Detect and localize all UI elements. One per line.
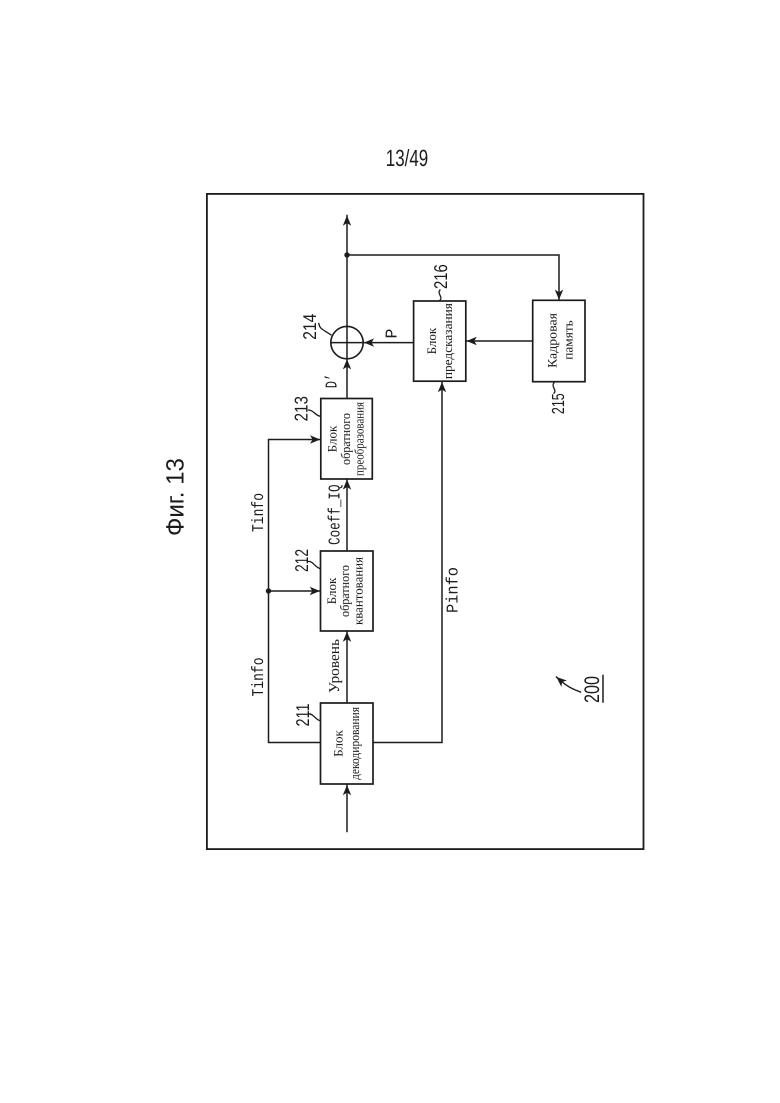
svg-text:предсказания: предсказания <box>440 303 455 379</box>
svg-text:212: 212 <box>291 549 312 572</box>
svg-text:Уровень: Уровень <box>327 639 343 693</box>
svg-text:Tinfo: Tinfo <box>249 658 268 697</box>
svg-text:преобразования: преобразования <box>352 402 367 476</box>
svg-text:211: 211 <box>292 704 313 727</box>
svg-text:Фиг. 13: Фиг. 13 <box>162 458 190 536</box>
svg-text:декодирования: декодирования <box>347 707 362 780</box>
svg-text:Блок: Блок <box>331 730 346 757</box>
svg-text:213: 213 <box>291 396 312 421</box>
svg-text:Кадровая: Кадровая <box>545 313 560 368</box>
svg-text:214: 214 <box>299 314 320 340</box>
svg-text:216: 216 <box>430 264 451 289</box>
svg-text:квантования: квантования <box>351 557 366 625</box>
svg-text:P: P <box>383 328 402 338</box>
svg-text:215: 215 <box>548 393 568 414</box>
svg-text:Pinfo: Pinfo <box>444 567 463 613</box>
svg-text:Tinfo: Tinfo <box>249 493 268 532</box>
svg-text:память: память <box>561 320 576 360</box>
svg-text:200: 200 <box>581 676 604 703</box>
svg-text:13/49: 13/49 <box>386 145 429 171</box>
svg-text:Coeff_IQ: Coeff_IQ <box>326 484 345 545</box>
svg-text:D’: D’ <box>323 374 342 389</box>
svg-text:Блок: Блок <box>424 327 439 354</box>
